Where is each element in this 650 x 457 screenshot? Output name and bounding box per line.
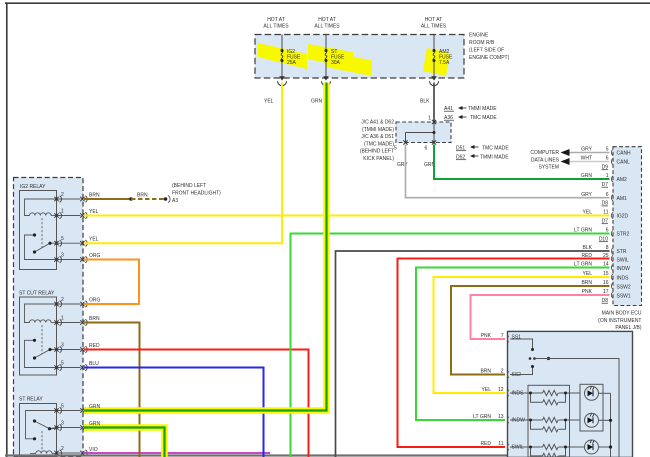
pin mark top (pin 1) <box>432 120 436 124</box>
svg-text:HOT AT: HOT AT <box>267 17 285 23</box>
svg-text:TMC MADE: TMC MADE <box>470 115 497 121</box>
svg-text:BLK: BLK <box>420 99 430 105</box>
svg-text:6: 6 <box>606 228 609 234</box>
wire VIO from ST relay pin 2 <box>84 452 270 454</box>
label PNK 7 <box>481 333 504 339</box>
svg-text:12: 12 <box>498 387 504 393</box>
svg-text:YEL: YEL <box>583 271 593 277</box>
svg-text:YEL: YEL <box>89 209 99 215</box>
svg-text:11: 11 <box>498 441 503 447</box>
svg-text:11: 11 <box>603 210 608 216</box>
svg-text:PANEL J/B): PANEL J/B) <box>615 325 641 331</box>
highlighted wire GRN ST relay pin 3 (yellow highlight) <box>84 428 165 457</box>
label ENGINE ROOM R/B <box>469 33 510 62</box>
connector grommet below ST fuse <box>323 76 329 80</box>
svg-text:ENGINE COMPT): ENGINE COMPT) <box>469 55 510 61</box>
relay ST switch <box>26 411 57 439</box>
label LT GRN 13 <box>473 414 504 420</box>
svg-text:1: 1 <box>61 209 64 215</box>
wire GRN junction pin6 to ECU AM2 <box>434 145 610 180</box>
wire BLU ST CUT pin5 down off page <box>84 368 264 457</box>
svg-text:MAIN BODY ECU: MAIN BODY ECU <box>602 311 642 317</box>
ECU pin SSW1 <box>602 289 631 304</box>
LED block box <box>580 384 603 431</box>
fuse IG2 25A <box>281 35 283 79</box>
svg-text:15: 15 <box>603 271 609 277</box>
ignition switch SS2 branch <box>510 367 533 375</box>
connector grommet below AM2 fuse <box>431 76 437 80</box>
LED INDS <box>585 386 611 400</box>
svg-text:GRN: GRN <box>581 173 593 179</box>
computer data lines arrows <box>561 149 570 156</box>
svg-text:YEL: YEL <box>583 210 593 216</box>
wire GRN ST fuse to ST relay pin5 (core) <box>84 83 327 411</box>
relay ST CUT pin 5 <box>54 361 87 371</box>
LED SWIL <box>585 440 611 454</box>
svg-text:17: 17 <box>603 289 609 295</box>
svg-text:5: 5 <box>61 404 64 410</box>
svg-text:VIO: VIO <box>89 447 98 453</box>
svg-text:RED: RED <box>581 253 592 259</box>
wire RED ECU SWIL to meter SWIL <box>398 259 610 448</box>
LED INDW <box>585 413 611 427</box>
svg-text:3: 3 <box>61 421 64 427</box>
svg-text:SSW2: SSW2 <box>617 284 631 290</box>
fuse ST 30A <box>325 35 327 79</box>
svg-text:25: 25 <box>603 253 609 259</box>
label HOT AT ALL TIMES (ST) <box>314 17 340 30</box>
svg-text:7: 7 <box>501 333 504 339</box>
svg-text:TMC MADE: TMC MADE <box>482 146 509 152</box>
svg-text:30A: 30A <box>331 60 341 66</box>
svg-text:1: 1 <box>606 173 609 179</box>
wire BRN ST CUT pin1 down off page <box>84 323 140 457</box>
wire switch output to right bus <box>535 359 620 457</box>
relay ST box <box>20 404 57 457</box>
SWIL row wire <box>510 446 543 448</box>
svg-text:2: 2 <box>61 446 64 452</box>
svg-text:(BEHIND LEFT: (BEHIND LEFT <box>360 149 394 155</box>
label D62 TMMI MADE <box>456 154 509 161</box>
svg-text:SWIL: SWIL <box>617 258 629 264</box>
svg-text:TMMI MADE: TMMI MADE <box>468 106 497 112</box>
svg-text:1: 1 <box>428 116 431 122</box>
label HOT AT ALL TIMES (AM2) <box>421 17 447 30</box>
junction internal wire <box>406 122 435 143</box>
relay ST CUT pin 1 <box>54 316 87 326</box>
svg-text:SSW1: SSW1 <box>617 293 631 299</box>
svg-text:16: 16 <box>603 280 609 286</box>
meter pin INDS <box>507 390 524 397</box>
svg-text:J/C A41 & D62: J/C A41 & D62 <box>361 120 394 126</box>
relay ST pin 2 <box>54 446 87 456</box>
wire BRN from IG2 relay pin 2 to A3 <box>84 196 170 203</box>
resistor SWIL (parallel, cut off) <box>531 447 543 456</box>
wire GRY to ECU CANH <box>569 152 610 154</box>
svg-text:BLK: BLK <box>583 245 593 251</box>
relay ST coil-switch dashed link <box>41 431 43 450</box>
wire PNK ECU SSW1 to meter SS1 <box>471 295 610 339</box>
svg-text:BRN: BRN <box>581 280 592 286</box>
wire LT GRN ECU STR2 down off page <box>291 234 610 457</box>
svg-text:A3: A3 <box>172 198 178 204</box>
INDW row wire <box>510 419 543 421</box>
svg-text:1: 1 <box>61 316 64 322</box>
fuse box: engine room R/B <box>255 35 464 79</box>
highlighter mark over AM2 fuse <box>423 48 450 76</box>
svg-text:BRN: BRN <box>89 316 100 322</box>
svg-text:COMPUTER: COMPUTER <box>530 150 559 156</box>
svg-text:TMMI MADE: TMMI MADE <box>480 155 509 161</box>
svg-text:ALL TIMES: ALL TIMES <box>263 24 289 30</box>
svg-text:LT GRN: LT GRN <box>473 414 491 420</box>
svg-text:7.5A: 7.5A <box>439 60 450 66</box>
combination meter box <box>508 331 633 457</box>
svg-text:HOT AT: HOT AT <box>318 17 336 23</box>
relay ST CUT switch <box>25 340 57 367</box>
ECU pin INDS <box>603 271 629 281</box>
meter pin SWIL <box>507 444 524 451</box>
svg-text:PNK: PNK <box>582 289 593 295</box>
svg-text:2: 2 <box>501 369 504 375</box>
label BRN 2 <box>480 369 503 375</box>
main body ECU connector box <box>613 147 642 306</box>
ECU pin INDW <box>603 262 630 273</box>
label J/C block left <box>360 120 395 163</box>
svg-text:ST RELAY: ST RELAY <box>19 397 43 403</box>
svg-text:LT GRN: LT GRN <box>574 262 592 268</box>
pin mark bottom pin 6 <box>432 140 436 144</box>
svg-text:WHT: WHT <box>581 156 592 162</box>
ECU pin AM2 <box>602 173 628 188</box>
label YEL 12 <box>482 387 504 393</box>
relay ST coil <box>30 451 57 454</box>
meter pin INDW <box>507 417 525 424</box>
svg-text:KICK PANEL): KICK PANEL) <box>363 156 394 162</box>
ECU pin SWIL <box>603 253 629 264</box>
ignition switch contact pair <box>529 357 532 360</box>
svg-text:STR2: STR2 <box>617 232 630 238</box>
svg-text:GRN: GRN <box>89 421 101 427</box>
svg-text:CANH: CANH <box>617 151 632 157</box>
junction node dot <box>433 131 436 134</box>
resistor INDS (parallel) <box>531 393 543 402</box>
fuse AM2 7.5A <box>433 35 435 79</box>
svg-text:(TMC MADE): (TMC MADE) <box>364 141 394 147</box>
meter pin SS2 <box>507 371 521 378</box>
relay IG2 pin 5 <box>54 236 87 246</box>
svg-text:GRN: GRN <box>311 99 323 105</box>
svg-text:ALL TIMES: ALL TIMES <box>314 24 340 30</box>
page border top <box>5 2 650 4</box>
ECU pin CANL <box>602 156 631 171</box>
wire GRN ST relay pin3 (core) <box>84 428 165 457</box>
svg-text:SYSTEM: SYSTEM <box>538 165 559 171</box>
label A36 TMC MADE <box>444 115 497 121</box>
relay ST pin 3 <box>54 421 87 431</box>
resistor INDW (top) <box>543 417 559 422</box>
relay IG2 coil-switch dashed link <box>41 218 43 248</box>
relay IG2 pin 3 <box>54 253 87 263</box>
svg-text:ENGINE: ENGINE <box>469 33 489 39</box>
svg-text:IG2 RELAY: IG2 RELAY <box>20 184 46 190</box>
highlighter mark over ST fuse (second stroke) <box>326 53 372 76</box>
wire YEL ECU INDS to meter INDS <box>434 277 610 393</box>
svg-text:5: 5 <box>606 147 609 153</box>
svg-text:RED: RED <box>480 441 491 447</box>
wire YEL from IG2 fuse to relay pin 5 <box>84 83 282 244</box>
resistor INDS (top) <box>543 390 559 395</box>
svg-text:AM1: AM1 <box>617 196 628 202</box>
ECU pin STR <box>606 245 627 255</box>
relay IG2 coil <box>25 199 57 216</box>
relay IG2 switch <box>25 235 57 260</box>
svg-text:DATA LINES: DATA LINES <box>531 157 560 163</box>
svg-text:ALL TIMES: ALL TIMES <box>421 24 447 30</box>
label HOT AT ALL TIMES (IG2) <box>263 17 289 30</box>
svg-text:GRY: GRY <box>581 147 592 153</box>
svg-text:3: 3 <box>61 253 64 259</box>
svg-text:GRY: GRY <box>581 192 592 198</box>
label A41 TMMI MADE <box>444 106 497 112</box>
svg-text:(BEHIND LEFT: (BEHIND LEFT <box>172 183 206 189</box>
relay ST CUT coil <box>25 304 57 323</box>
pin mark bottom pin 5 <box>403 140 407 144</box>
svg-text:INDW: INDW <box>617 266 631 272</box>
bottom scan edge bar <box>5 454 507 456</box>
svg-text:2: 2 <box>61 192 64 198</box>
svg-text:ROOM R/B: ROOM R/B <box>469 40 495 46</box>
resistor SWIL (top) <box>543 444 559 449</box>
svg-text:(TMMI MADE): (TMMI MADE) <box>362 127 394 133</box>
svg-text:2: 2 <box>61 297 64 303</box>
svg-text:5: 5 <box>61 361 64 367</box>
resistor block box <box>528 385 570 457</box>
LED output bus <box>610 393 612 457</box>
svg-text:INDS: INDS <box>617 275 630 281</box>
svg-text:6: 6 <box>606 156 609 162</box>
wire BLK from AM2 fuse to junction <box>433 83 435 122</box>
ignition switch SS1 branch <box>510 339 533 350</box>
svg-text:CANL: CANL <box>617 160 631 166</box>
svg-text:6: 6 <box>606 192 609 198</box>
relay ST pin 5 <box>54 404 87 414</box>
relay IG2 box <box>20 191 57 270</box>
svg-text:YEL: YEL <box>482 387 492 393</box>
label D51 TMC MADE <box>456 145 509 152</box>
label COMPUTER DATA LINES SYSTEM <box>530 150 559 171</box>
wire color labels at ECU <box>574 147 593 296</box>
highlighted wire GRN ST fuse to ST relay pin 5 (yellow highlight) <box>84 83 327 411</box>
svg-text:13: 13 <box>498 414 504 420</box>
label A3 behind left front headlight <box>172 183 221 204</box>
svg-text:AM2: AM2 <box>617 177 628 183</box>
wire LT GRN ECU INDW to meter INDW <box>416 268 610 421</box>
svg-text:PNK: PNK <box>481 333 492 339</box>
svg-text:5: 5 <box>394 146 397 152</box>
svg-text:YEL: YEL <box>89 237 99 243</box>
highlighter mark over IG2 fuse <box>258 43 307 69</box>
wire YEL IG2 relay pin1 to ECU IG2D <box>84 215 610 217</box>
svg-text:ST CUT RELAY: ST CUT RELAY <box>19 291 55 297</box>
ECU pin IG2D <box>602 210 629 225</box>
ECU pin SSW2 <box>603 280 631 290</box>
highlighter mark over ST fuse <box>308 44 353 69</box>
page border left <box>6 2 8 457</box>
svg-text:ORG: ORG <box>89 298 101 304</box>
label MAIN BODY ECU <box>598 311 642 332</box>
relay IG2 pin 1 <box>54 209 87 219</box>
wire WHT to ECU CANL <box>569 161 610 163</box>
svg-text:(ON INSTRUMENT: (ON INSTRUMENT <box>598 318 641 324</box>
label RED 11 <box>480 441 503 447</box>
relay ST CUT pin 3 <box>54 343 87 353</box>
relay ST CUT pin 2 <box>54 297 87 307</box>
svg-text:GRN: GRN <box>89 404 101 410</box>
resistor INDW (parallel) <box>531 420 543 429</box>
ECU pin STR2 <box>599 228 630 243</box>
svg-text:3: 3 <box>61 343 64 349</box>
svg-text:5: 5 <box>61 236 64 242</box>
meter pin SS1 <box>507 334 521 342</box>
svg-text:STR: STR <box>617 249 627 255</box>
svg-text:25A: 25A <box>287 60 297 66</box>
junction connector J/C box <box>396 122 451 143</box>
relay IG2 pin 2 <box>54 192 87 202</box>
svg-text:LT GRN: LT GRN <box>574 228 592 234</box>
INDS row wire <box>510 392 543 394</box>
svg-text:ORG: ORG <box>89 253 101 259</box>
ECU pin AM1 <box>602 192 628 207</box>
wire BLK ECU STR down off page <box>336 251 610 457</box>
wire ORG IG2 relay pin3 to ST CUT pin2 <box>84 260 139 305</box>
svg-text:FRONT HEADLIGHT): FRONT HEADLIGHT) <box>172 191 221 197</box>
svg-text:BRN: BRN <box>89 193 100 199</box>
ECU pin CANH <box>606 147 631 157</box>
svg-text:BRN: BRN <box>480 369 491 375</box>
connector grommet below IG2 fuse <box>279 76 285 80</box>
svg-text:RED: RED <box>89 343 100 349</box>
svg-text:HOT AT: HOT AT <box>425 17 443 23</box>
svg-text:GRY: GRY <box>397 162 408 168</box>
ignition switch output node <box>547 357 550 360</box>
svg-text:BLU: BLU <box>89 361 99 367</box>
svg-text:6: 6 <box>425 146 428 152</box>
relay ST CUT coil-switch dashed link <box>41 325 43 354</box>
relay panel dashed box <box>14 178 84 457</box>
svg-text:14: 14 <box>603 262 609 268</box>
svg-text:J/C A36 & D51: J/C A36 & D51 <box>361 134 394 140</box>
svg-text:YEL: YEL <box>264 99 274 105</box>
svg-text:BRN: BRN <box>137 193 148 199</box>
relay ST CUT box <box>20 297 57 375</box>
wire GRY junction pin5 to ECU AM1 <box>406 145 610 198</box>
svg-text:IG2D: IG2D <box>617 214 629 220</box>
wire RED ST CUT pin3 down off page <box>84 350 309 457</box>
svg-text:8: 8 <box>606 245 609 251</box>
svg-text:(LEFT SIDE OF: (LEFT SIDE OF <box>469 48 504 54</box>
wire BRN ECU SSW2 to meter SS2 <box>451 286 610 375</box>
